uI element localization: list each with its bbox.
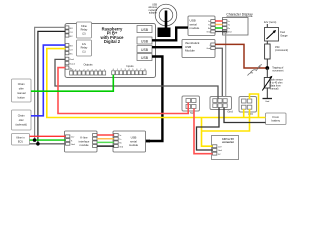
USB serial module lower plug stub bbox=[146, 140, 151, 143]
wire 12V bus top loop to battery feed (yellow) bbox=[250, 94, 259, 118]
svg-text:12v (nom): 12v (nom) bbox=[264, 20, 277, 24]
USB cable Pi port2 to serial module (thick black) bbox=[152, 28, 188, 41]
Pi USB port 2 bbox=[137, 37, 152, 44]
wire K-line module Rx to serial (green) bbox=[97, 141, 114, 143]
ground symbol bbox=[263, 99, 273, 104]
wire relay1 NO to chain oiler solenoid (blue) bbox=[31, 45, 65, 116]
svg-text:module: module bbox=[79, 143, 89, 147]
svg-text:NC: NC bbox=[70, 36, 74, 38]
USB cable Pi port4 to USB serial module lower (thick black) bbox=[149, 57, 162, 142]
annotation squiggles bbox=[248, 65, 263, 76]
svg-text:Tx: Tx bbox=[119, 139, 121, 141]
svg-text:NC: NC bbox=[70, 54, 74, 56]
wire tap to tank sensor bbox=[266, 68, 268, 78]
svg-text:12v: 12v bbox=[71, 137, 74, 139]
wire 5v serial to display (red) bbox=[215, 20, 222, 22]
svg-text:Gnd: Gnd bbox=[227, 109, 233, 113]
svg-text:CO: CO bbox=[70, 32, 74, 34]
svg-text:module: module bbox=[190, 26, 200, 30]
Character Display U3 bbox=[223, 13, 253, 35]
svg-text:Digital 2: Digital 2 bbox=[104, 39, 121, 44]
USB cable Pi port3 to thumbstick (thick black) bbox=[152, 46, 182, 48]
K-line in ECU box bbox=[12, 134, 30, 146]
svg-text:manual: manual bbox=[17, 91, 26, 95]
node tap junction bbox=[265, 66, 283, 73]
svg-text:Gauge: Gauge bbox=[280, 34, 288, 37]
wire yellow branch down to converter 12V pin bbox=[202, 118, 213, 147]
svg-text:(2): (2) bbox=[82, 31, 85, 35]
svg-text:oiler: oiler bbox=[19, 118, 24, 122]
svg-text:Chain: Chain bbox=[18, 114, 25, 118]
USB serial module U7 (lower, for K-line) bbox=[113, 131, 146, 152]
wire relay2 NO to K-line junction (gray) bbox=[35, 27, 66, 140]
svg-text:movement: movement bbox=[272, 70, 283, 73]
node 12v (nom) supply label bbox=[264, 20, 277, 28]
svg-text:(1): (1) bbox=[82, 49, 85, 53]
wire resistor to tap node bbox=[266, 59, 268, 68]
resistor R1 15 ohm coil-wound bbox=[265, 44, 289, 59]
5V bus block bbox=[182, 96, 200, 115]
svg-text:USB: USB bbox=[141, 40, 149, 44]
Pi USB port 3 bbox=[137, 46, 152, 53]
svg-text:NO: NO bbox=[70, 28, 74, 30]
wire 12V bus pin2 to converter branch (yellow) bbox=[202, 109, 250, 131]
wire ECU 12v to K-line module (red) bbox=[30, 135, 66, 137]
Pi USB port 1 bbox=[137, 26, 152, 33]
svg-text:Rx: Rx bbox=[208, 28, 210, 30]
Gnd bus block bbox=[210, 97, 233, 114]
wire 12V bus to yellow feed (yellow riser) bbox=[243, 109, 245, 118]
svg-text:Relay: Relay bbox=[81, 28, 88, 32]
wire Gnd serial to display (black) bbox=[215, 31, 227, 33]
svg-text:5v: 5v bbox=[208, 21, 210, 23]
svg-text:button: button bbox=[18, 95, 26, 99]
wire sensor to ground bbox=[266, 88, 268, 98]
wire ECU Gnd to module (gray) bbox=[30, 143, 66, 145]
wire relay1 CO to 12V bus (yellow) bbox=[47, 49, 266, 118]
svg-text:Kline in: Kline in bbox=[16, 137, 25, 140]
svg-text:CO: CO bbox=[70, 50, 74, 52]
wire Tx serial to display (orange) bbox=[215, 24, 222, 26]
Chain oiler solenoid L1 bbox=[12, 110, 32, 130]
Chain oiler manual button S1 bbox=[12, 79, 32, 102]
svg-text:5v: 5v bbox=[119, 135, 121, 137]
From battery box bbox=[266, 113, 287, 125]
svg-text:manual): manual) bbox=[270, 88, 279, 91]
svg-text:Rx: Rx bbox=[119, 143, 121, 145]
wire display Gnd down to Gnd bus (gray) bbox=[225, 33, 227, 99]
K-line interface module U6 bbox=[65, 131, 98, 152]
svg-text:Chain: Chain bbox=[18, 82, 25, 86]
relay 1 terminals NO CO NC bbox=[65, 44, 73, 56]
svg-text:Kline: Kline bbox=[81, 24, 87, 28]
12V bus block bbox=[239, 97, 257, 116]
svg-text:Rx: Rx bbox=[228, 28, 230, 30]
svg-text:ECU: ECU bbox=[18, 140, 23, 143]
svg-text:5v: 5v bbox=[228, 21, 230, 23]
svg-text:5vout: 5vout bbox=[70, 63, 76, 66]
svg-text:Gnd: Gnd bbox=[218, 150, 222, 152]
node junction relay2 CO on Gnd bbox=[36, 142, 40, 146]
wire ECU K-line to module (green) bbox=[30, 139, 66, 141]
svg-text:Tx: Tx bbox=[228, 25, 230, 27]
svg-text:Inputs: Inputs bbox=[126, 64, 134, 68]
wire K-line module 5v to serial (red) bbox=[97, 134, 114, 136]
svg-text:battery: battery bbox=[272, 119, 281, 123]
svg-text:Gnd: Gnd bbox=[119, 146, 123, 148]
relay K1 (PiFace relay 1) bbox=[77, 40, 92, 56]
svg-text:converter: converter bbox=[222, 140, 234, 144]
relay 2 terminals NO CO NC bbox=[65, 26, 73, 38]
svg-text:oiler: oiler bbox=[19, 86, 24, 90]
fuel gauge meter M1 bbox=[265, 28, 289, 42]
wire Gnd bus to battery (black) bbox=[224, 108, 266, 123]
wire button to PiFace input 0 (green) bbox=[31, 75, 113, 92]
Raspberry Pi B+ with PiFace Digital 2 board U1 bbox=[65, 24, 156, 78]
svg-text:USB: USB bbox=[141, 28, 149, 32]
svg-text:Outputs: Outputs bbox=[83, 63, 93, 67]
PiFace Inputs terminal strip bbox=[112, 64, 146, 75]
wire relay2 CO to Gnd wire junction (black) bbox=[38, 31, 65, 143]
wire thumbstick + to fuel gauge tap (brown) bbox=[215, 44, 266, 68]
wire K-line module Gnd to serial (black) bbox=[97, 145, 114, 147]
svg-text:NO: NO bbox=[70, 46, 74, 48]
svg-text:Gnd: Gnd bbox=[207, 48, 211, 50]
wire 5V bus pin2 to converter 5V pin (red) bbox=[194, 109, 213, 154]
svg-text:(coil-wound): (coil-wound) bbox=[275, 49, 288, 52]
wire K-line module Tx to serial (orange) bbox=[97, 138, 114, 140]
svg-text:Gnd: Gnd bbox=[228, 32, 232, 34]
USB wireless network adapter with antenna bbox=[148, 4, 176, 38]
wire Pi 5v to 5V bus (red) bbox=[58, 68, 188, 114]
svg-text:Gnd: Gnd bbox=[71, 144, 75, 146]
svg-text:12v: 12v bbox=[82, 42, 87, 46]
wire Rx serial to display (green) bbox=[215, 27, 222, 29]
wire gauge to resistor bbox=[266, 41, 268, 44]
svg-text:(solenoid): (solenoid) bbox=[16, 123, 28, 127]
Pi USB port 4 bbox=[137, 54, 152, 61]
svg-text:Tx: Tx bbox=[208, 25, 210, 27]
wire Gnd bus to converter Gnd pin (black) bbox=[197, 108, 220, 151]
thumbstick USB Module U4 bbox=[182, 40, 215, 58]
tank sensor RV1 variable resistor bbox=[262, 76, 283, 91]
wire thumbstick Gnd to Gnd bus (dark gray) bbox=[215, 48, 222, 98]
12V to 5V converter U5 bbox=[212, 136, 239, 160]
svg-text:USB: USB bbox=[141, 56, 149, 60]
svg-text:USB: USB bbox=[141, 48, 149, 52]
svg-text:Gnd: Gnd bbox=[207, 32, 211, 34]
svg-text:Module: Module bbox=[185, 49, 195, 53]
svg-text:Gnd: Gnd bbox=[265, 101, 270, 103]
svg-text:Character Display: Character Display bbox=[226, 13, 253, 17]
node junction relay2 NO on K-line bbox=[33, 138, 37, 142]
svg-text:module: module bbox=[129, 143, 139, 147]
svg-text:Relay: Relay bbox=[81, 46, 88, 50]
relay K2 (PiFace relay 2) bbox=[77, 22, 92, 38]
USB serial module U2 (top, for display) bbox=[188, 16, 215, 36]
wire Pi Gnd to Gnd bus (gray) bbox=[55, 59, 218, 98]
PiFace Outputs terminal strip bbox=[69, 63, 106, 75]
power terminals Gnd 5vout 5v bbox=[65, 57, 75, 70]
